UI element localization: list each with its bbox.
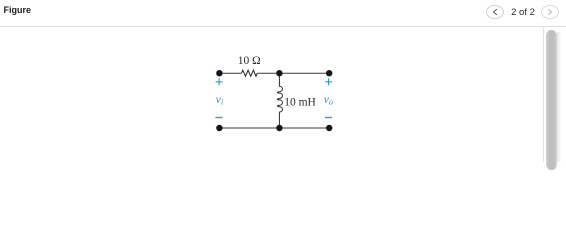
svg-text:vo: vo: [324, 94, 333, 107]
polarity plus (left): [216, 78, 223, 85]
wire: resistor to top-right terminal (through middle node): [257, 72, 329, 74]
wire: top-left segment (v_i+ terminal to resistor): [219, 72, 241, 74]
next page button (disabled): [541, 5, 559, 19]
page indicator: [505, 8, 541, 18]
svg-text:vi: vi: [216, 94, 224, 107]
polarity minus (left): [215, 117, 222, 119]
prev page button: [486, 5, 504, 19]
svg-text:10 mH: 10 mH: [284, 96, 316, 108]
node: bottom-middle junction: [276, 125, 282, 131]
wire: bottom rail: [219, 127, 329, 129]
scrollbar track left border: [543, 27, 544, 162]
node: top-middle junction: [276, 70, 282, 76]
inductor 10 mH (vertical coil): [277, 73, 282, 128]
polarity plus (right): [325, 78, 332, 85]
circuit schematic: [0, 0, 566, 162]
svg-text:10 Ω: 10 Ω: [238, 55, 261, 67]
resistor 10 ohm (zigzag): [242, 70, 258, 76]
header divider: [0, 26, 566, 27]
node: top-left terminal: [216, 70, 222, 76]
node: bottom-left terminal: [216, 125, 222, 131]
node: top-right terminal: [326, 70, 332, 76]
prev chevron: [486, 5, 504, 19]
polarity minus (right): [325, 117, 332, 119]
next chevron: [541, 5, 559, 19]
node: bottom-right terminal: [326, 125, 332, 131]
scrollbar thumb soft right edge: [557, 32, 561, 162]
header title: [4, 6, 32, 15]
scrollbar thumb: [546, 30, 557, 170]
